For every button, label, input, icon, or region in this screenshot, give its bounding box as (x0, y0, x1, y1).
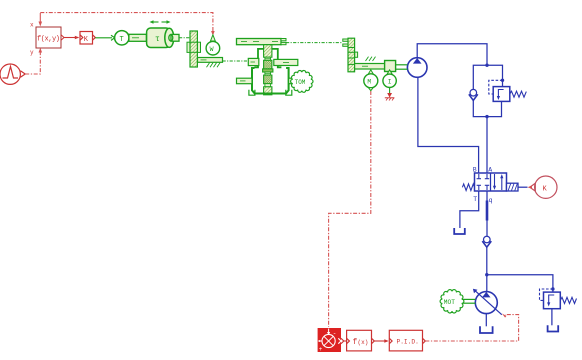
mount foot right (286, 90, 292, 95)
function block f(x) (347, 330, 375, 351)
rotary inertia tau (147, 28, 179, 48)
node pilot tap RV2 (551, 287, 554, 290)
cam mechanism top bar (237, 39, 287, 45)
pump P1 (407, 58, 427, 78)
wire relief valve RV2 to tank T2 (551, 309, 553, 326)
mechanical link top bar to rack R2 (286, 42, 343, 44)
check valve CV1 (469, 89, 478, 100)
cam follower left bracket (254, 49, 263, 67)
svg-text:P.I.D.: P.I.D. (397, 339, 419, 346)
lower left bar (237, 78, 253, 84)
svg-text:A: A (488, 167, 492, 174)
wire f(x) to PID (374, 339, 388, 343)
wire junction B to valve port A (486, 117, 488, 173)
follower left bar (248, 58, 258, 65)
pilot line RV2 (540, 289, 553, 300)
spring RV2 (560, 297, 576, 303)
tank T2 (548, 325, 559, 331)
shaft MOT to pump P2 (462, 299, 475, 303)
wire pump P2 to tank T3 (485, 314, 487, 327)
ground anchor (red) (385, 93, 395, 101)
svg-text:T: T (120, 36, 124, 44)
shaft to pump P1 (396, 65, 408, 69)
svg-text:q: q (489, 197, 493, 204)
wire pump P1 return to valve port B (418, 77, 479, 173)
velocity arrows (150, 20, 171, 24)
mechanical link inertia to rack R1 (179, 37, 190, 39)
summing junction (318, 328, 341, 353)
controller PID (389, 330, 425, 351)
svg-text:W: W (210, 46, 214, 53)
wire signal source to f(x,y) y-input (25, 48, 42, 74)
shaft (129, 34, 147, 41)
node junction A (485, 63, 488, 66)
gain block K (80, 32, 95, 45)
lower right bar (289, 78, 295, 84)
wire feedback sensor M to summing junction (329, 91, 371, 327)
cam follower right bracket (272, 49, 282, 67)
tank T3 (480, 326, 493, 333)
svg-text:I: I (388, 79, 392, 86)
control wire PID to variable pump displacement (425, 314, 518, 342)
check valve CV2 (482, 236, 491, 247)
wire summing junction to f(x) (341, 338, 346, 343)
rack-pinion R1 (187, 31, 201, 67)
svg-text:-: - (333, 330, 337, 337)
wire feedback from speed sensor W to f(x,y) x-input (40, 13, 214, 36)
sensor M (364, 70, 378, 91)
mechanical link bar to cam follower (223, 60, 249, 62)
spring DV1 (462, 184, 474, 191)
pilot line RV1 (489, 80, 503, 94)
wire junction A to relief valve RV1 (487, 65, 503, 86)
relief valve RV1 (493, 87, 510, 102)
wire check valve CV1 to junction B (473, 100, 487, 116)
wire valve port T to tank T1 (460, 191, 479, 228)
svg-text:MOT: MOT (444, 299, 455, 306)
wire f(x,y) to gain K (64, 36, 79, 40)
svg-text:T: T (473, 196, 477, 203)
cam housing cup (252, 68, 289, 94)
variable displacement pump P2 (473, 289, 502, 315)
wire junction A to check valve CV1 (473, 65, 487, 89)
directional valve DV1 (475, 173, 507, 191)
wire K source to valve solenoid (528, 185, 532, 189)
rack-pinion R2 (343, 38, 358, 72)
solenoid DV1 (507, 183, 528, 191)
relief valve RV2 (544, 292, 561, 309)
svg-text:y: y (30, 49, 34, 56)
hose segment (486, 201, 489, 221)
follower right bar (274, 59, 298, 65)
signal source S1 (0, 64, 25, 84)
sensor T2 (383, 70, 396, 93)
SIGNALS2 (407, 44, 576, 333)
prime mover MOT (440, 290, 464, 313)
tank T1 (454, 228, 465, 234)
slider bar under sensor W (198, 58, 223, 68)
wire check valve CV2 to junction C (486, 247, 488, 291)
svg-text:x: x (30, 22, 34, 29)
svg-text:TOM: TOM (295, 79, 306, 86)
torque source T (115, 31, 129, 45)
svg-text:(x): (x) (358, 339, 369, 346)
svg-text:f(x,y): f(x,y) (37, 36, 60, 44)
cam shaft column (263, 45, 273, 95)
svg-text:+: + (319, 346, 323, 353)
mount foot left (249, 90, 255, 95)
wire gain K to torque source (95, 35, 115, 40)
f(x,y) x-input arrow (39, 13, 43, 27)
spring RV1 (510, 91, 527, 97)
node junction C (485, 273, 488, 276)
signal source K (valve command) (530, 176, 557, 198)
mass block (385, 61, 396, 72)
node pilot tap RV1 (501, 79, 504, 82)
svg-text:B: B (473, 167, 477, 174)
svg-text:M: M (367, 79, 371, 86)
node junction B (485, 115, 488, 118)
function block f(x,y) (36, 27, 64, 48)
piston shaft bar (355, 57, 385, 69)
speed sensor W (206, 35, 220, 55)
svg-text:τ: τ (155, 35, 160, 44)
wire relief valve RV1 to junction B (487, 101, 502, 116)
wire junction C to relief valve RV2 (487, 275, 553, 292)
wire valve port q to check valve CV2 (486, 191, 488, 236)
wire pump P1 outlet to junction A (417, 44, 487, 65)
HYDRAULICS2 (115, 20, 476, 313)
torque meter TOM (291, 71, 313, 93)
